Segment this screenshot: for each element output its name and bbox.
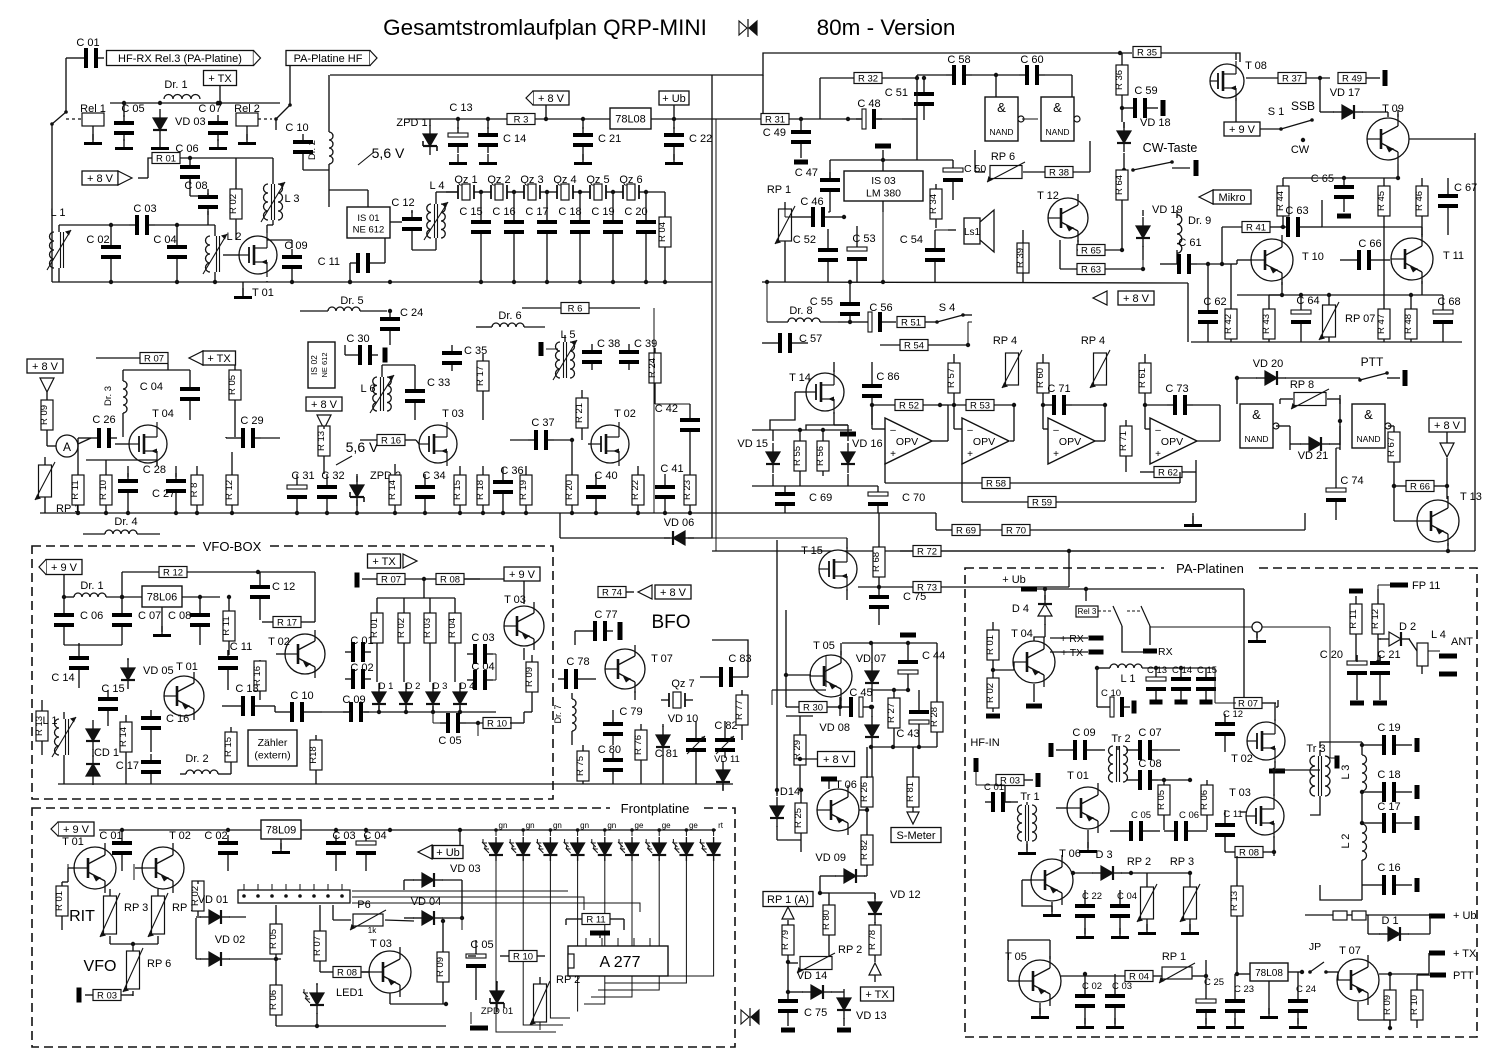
svg-text:78L06: 78L06	[147, 592, 178, 604]
diode LED ge 8	[672, 821, 698, 861]
svg-text:T 08: T 08	[1245, 60, 1267, 72]
svg-text:C 49: C 49	[763, 127, 786, 139]
resistor R 03 front	[77, 988, 134, 1003]
capacitor C 23 pa	[1225, 974, 1254, 1029]
capacitor C 01 front	[99, 830, 132, 871]
diode VD 20	[1235, 358, 1360, 385]
IC 78L06	[142, 586, 220, 637]
svg-text:C 11: C 11	[318, 256, 340, 268]
svg-text:VD 05: VD 05	[143, 665, 174, 677]
capacitor C 08 pa	[1126, 758, 1192, 790]
resistor R 11 pa v	[1348, 589, 1363, 663]
resistor R 12 pa v	[1370, 589, 1384, 664]
svg-text:C 30: C 30	[346, 333, 369, 345]
capacitor C 15 pa	[1196, 665, 1217, 705]
transistor T 04 fet	[115, 408, 174, 466]
crystal Qz 4	[549, 174, 581, 200]
svg-text:R 11: R 11	[70, 480, 81, 499]
svg-text:C 19: C 19	[1377, 722, 1400, 734]
svg-text:&: &	[1364, 407, 1373, 422]
ground pa conn	[1150, 622, 1330, 758]
svg-text:VD 02: VD 02	[215, 934, 246, 946]
svg-text:JP: JP	[1309, 941, 1321, 953]
transformer L 6	[361, 365, 394, 413]
svg-text:R 6: R 6	[568, 303, 583, 314]
Frontplatine label	[610, 801, 700, 816]
svg-text:L 1: L 1	[51, 207, 66, 219]
resistor R 13 v	[316, 426, 330, 474]
node HF-RX box	[107, 51, 261, 66]
svg-text:C 06: C 06	[80, 610, 103, 622]
resistor R 13 pa v	[1229, 856, 1243, 976]
svg-text:C 11: C 11	[1223, 809, 1242, 820]
svg-text:C 74: C 74	[1340, 475, 1363, 487]
capacitor C 71	[1041, 383, 1107, 415]
svg-text:C 28: C 28	[143, 464, 166, 476]
resistor R 02 pa v	[985, 670, 999, 712]
capacitor C 51	[885, 76, 934, 120]
svg-text:HF-IN: HF-IN	[970, 737, 999, 749]
capacitor C 12 vfo	[250, 572, 295, 620]
svg-text:&: &	[1252, 407, 1261, 422]
svg-text:IS 03: IS 03	[871, 175, 896, 187]
svg-text:R 55: R 55	[792, 446, 803, 466]
resistor R 59	[962, 463, 1196, 508]
power +TX mixer	[189, 351, 236, 365]
svg-text:Tr 2: Tr 2	[1111, 733, 1130, 745]
capacitor C 08 vfo	[168, 595, 210, 645]
svg-text:C 63: C 63	[1285, 205, 1308, 217]
svg-text:T 03: T 03	[442, 408, 464, 420]
svg-text:C 04: C 04	[153, 234, 176, 246]
svg-text:R 11: R 11	[1348, 609, 1359, 628]
resistor R 56 v	[815, 428, 829, 476]
transistor T 03 pa fet	[1229, 768, 1284, 850]
svg-text:R 15: R 15	[223, 737, 234, 757]
diode VD 03	[151, 109, 206, 150]
node PA-Platine HF box	[286, 51, 377, 66]
transformer L 4	[424, 180, 450, 250]
resistor R 07 pa	[1234, 698, 1276, 710]
svg-text:T 14: T 14	[789, 372, 811, 384]
svg-text:C 09: C 09	[284, 240, 307, 252]
svg-text:C 66: C 66	[1358, 238, 1381, 250]
svg-text:gn: gn	[580, 821, 589, 830]
svg-text:C 12: C 12	[1223, 709, 1243, 720]
svg-text:gn: gn	[553, 821, 562, 830]
capacitor C 19 pa	[1360, 722, 1420, 755]
capacitor C 81 trim	[655, 721, 706, 784]
inductor Dr. 2	[307, 75, 333, 207]
svg-text:C 56: C 56	[869, 302, 892, 314]
capacitor C 14 vfo	[51, 643, 89, 688]
capacitor C 20 pa	[1320, 649, 1367, 706]
wire is03 in	[785, 209, 792, 217]
svg-text:C 06: C 06	[175, 143, 198, 155]
capacitor C 10 vfo	[275, 690, 322, 722]
wire vfo box right	[464, 579, 524, 604]
capacitor C 41	[655, 463, 684, 513]
svg-text:RP 6: RP 6	[147, 958, 171, 970]
svg-text:R18: R18	[308, 746, 319, 763]
svg-text:VD 14: VD 14	[797, 970, 828, 982]
svg-text:VD 08: VD 08	[819, 722, 850, 734]
svg-text:C 38: C 38	[597, 338, 620, 350]
resistor R 02	[228, 158, 242, 240]
svg-text:Gesamtstromlaufplan QRP-MINI: Gesamtstromlaufplan QRP-MINI	[383, 15, 707, 40]
svg-text:VD 03: VD 03	[175, 116, 206, 128]
svg-text:C 52: C 52	[793, 234, 816, 246]
svg-text:C 59: C 59	[1134, 85, 1157, 97]
diode D 1 vfo	[372, 681, 393, 713]
resistor R 80 v	[820, 893, 835, 962]
svg-text:R 26: R 26	[859, 782, 870, 802]
capacitor C 53	[847, 226, 876, 282]
svg-text:PA-Platine HF: PA-Platine HF	[294, 53, 363, 65]
capacitor C 12 mixer	[390, 197, 436, 250]
pot RP 2 sm	[788, 944, 862, 973]
PA-Platinen dashed frame	[965, 568, 1477, 1037]
transistor T 02 vfo	[268, 630, 325, 678]
node S-Meter box	[891, 828, 941, 843]
transistor T 01 pa	[1056, 770, 1109, 842]
power +8V t13	[1429, 418, 1465, 486]
svg-text:C 08: C 08	[1138, 758, 1161, 770]
resistor R 71 v	[1118, 420, 1132, 472]
svg-text:C 71: C 71	[1047, 383, 1070, 395]
svg-text:R 66: R 66	[1410, 481, 1430, 492]
svg-text:VD 19: VD 19	[1152, 204, 1183, 216]
svg-text:Dr. 2: Dr. 2	[185, 753, 208, 765]
svg-text:BFO: BFO	[651, 612, 690, 633]
transistor T 14 fet	[789, 362, 844, 425]
svg-text:C 08: C 08	[168, 610, 191, 622]
svg-text:OPV: OPV	[973, 436, 995, 448]
IC IS 02	[308, 342, 335, 388]
svg-text:VD 21: VD 21	[1298, 450, 1329, 462]
svg-text:D 2: D 2	[1399, 621, 1416, 633]
diode LED ge 6	[618, 821, 644, 861]
capacitor C 05 front	[466, 939, 494, 1000]
svg-text:T 05: T 05	[813, 640, 835, 652]
wire sm down	[818, 876, 822, 895]
svg-text:C 07: C 07	[198, 103, 221, 115]
wire xtal chain	[446, 191, 458, 193]
capacitor C 39	[619, 338, 657, 370]
svg-text:C 06: C 06	[1179, 810, 1199, 821]
svg-text:C 13: C 13	[449, 102, 472, 114]
diode VD 15	[737, 430, 852, 486]
capacitor C 56	[848, 302, 896, 332]
diode VD 05	[121, 658, 174, 689]
svg-text:Frontplatine: Frontplatine	[621, 801, 690, 816]
svg-text:R 79: R 79	[780, 930, 791, 950]
wire t14 gate loop	[770, 392, 848, 430]
power +Ub pa	[1002, 574, 1244, 703]
svg-text:R 12: R 12	[1370, 609, 1381, 629]
capacitor C 24 pa2	[1288, 972, 1316, 1029]
svg-text:Dr. 7: Dr. 7	[553, 704, 563, 723]
resistor R 25 v	[793, 788, 807, 840]
svg-text:L 4: L 4	[430, 180, 445, 192]
diode LED gn 1	[482, 821, 507, 861]
svg-text:RP 8: RP 8	[1290, 379, 1314, 391]
wire audio misc	[830, 75, 953, 162]
wire pa rel3 rx path	[1034, 637, 1145, 652]
svg-text:R 57: R 57	[946, 368, 957, 388]
svg-text:VD 18: VD 18	[1140, 117, 1171, 129]
resistor R 38	[1023, 141, 1090, 178]
svg-text:T 07: T 07	[1339, 945, 1361, 957]
op-amp OPV3	[1043, 405, 1105, 464]
resistor R 18 v	[475, 466, 489, 513]
capacitor C 07 pa	[1126, 727, 1180, 760]
power +TX top	[204, 71, 237, 86]
svg-text:T 07: T 07	[651, 653, 673, 665]
pot RP 3 pa	[1131, 856, 1200, 935]
capacitor C 06 pa	[1164, 810, 1207, 841]
svg-text:R 16: R 16	[381, 435, 401, 446]
svg-text:+ 8 V: + 8 V	[1123, 293, 1150, 305]
svg-text:+ TX: + TX	[207, 353, 231, 365]
capacitor C 02 vfo	[345, 662, 374, 689]
wire sm top	[772, 690, 826, 705]
resistor R 07 vfo	[377, 574, 426, 586]
svg-text:R 53: R 53	[970, 400, 990, 411]
capacitor C 04 vfo2	[467, 661, 495, 690]
svg-text:R 43: R 43	[1261, 314, 1272, 334]
svg-text:C 23: C 23	[1234, 984, 1254, 995]
capacitor C 11 pa	[1215, 809, 1243, 852]
transistor T 07 bfo	[605, 645, 673, 700]
power +8V smeter	[798, 752, 855, 767]
wire sm join	[777, 840, 801, 852]
capacitor C 13 pa	[1146, 665, 1167, 705]
svg-text:VD 16: VD 16	[852, 438, 883, 450]
transistor T 09	[1367, 103, 1475, 178]
svg-text:R 07: R 07	[381, 574, 401, 585]
resistor R 64 v	[1114, 170, 1128, 240]
svg-text:NE 612: NE 612	[320, 352, 329, 377]
wire audio bottom bus	[1191, 341, 1462, 343]
svg-text:gn: gn	[499, 821, 508, 830]
crystal Qz 7	[661, 678, 695, 708]
resistor R 11 front	[566, 914, 624, 931]
capacitor C 26	[78, 414, 117, 448]
capacitor C 32	[317, 470, 345, 513]
svg-text:R 74: R 74	[602, 587, 622, 598]
svg-text:R 01: R 01	[985, 635, 996, 655]
diode VD 01	[196, 894, 246, 924]
inductor Dr. 4	[83, 516, 160, 534]
switch PTT	[1358, 355, 1407, 386]
resistor R 39 v	[1015, 230, 1029, 282]
node FP 11	[1378, 580, 1440, 592]
wire TX drop	[219, 86, 221, 103]
capacitor C 11 vfo	[218, 641, 252, 690]
wire relay rail	[110, 101, 280, 105]
svg-text:PA-Platinen: PA-Platinen	[1176, 561, 1244, 576]
svg-text:R 54: R 54	[904, 340, 924, 351]
svg-text:R 02: R 02	[396, 618, 407, 638]
svg-text:L 1: L 1	[43, 715, 58, 727]
capacitor C 03 vfo	[467, 632, 495, 664]
svg-text:A: A	[63, 440, 71, 454]
diode LED gn 2	[509, 821, 534, 861]
svg-text:L 2: L 2	[1340, 834, 1352, 849]
wire t09 col	[1474, 133, 1476, 139]
capacitor C 04 pa2	[1110, 890, 1137, 939]
svg-text:D 1: D 1	[1381, 915, 1398, 927]
capacitor C 83	[700, 653, 752, 687]
resistor R 14 vfo	[118, 715, 132, 784]
capacitor C 34	[415, 470, 446, 513]
diode VD 13	[837, 989, 887, 1033]
gnd T14	[834, 425, 856, 437]
wire audio out	[828, 212, 948, 284]
VFO-BOX dashed frame	[32, 546, 553, 799]
capacitor C 35	[442, 345, 487, 371]
svg-text:C 14: C 14	[51, 672, 74, 684]
svg-text:HF-RX Rel.3 (PA-Platine): HF-RX Rel.3 (PA-Platine)	[118, 53, 242, 65]
resistor R 01 pa v	[985, 622, 1014, 672]
resistor R 05 front v	[268, 905, 282, 961]
svg-text:FP 11: FP 11	[1412, 580, 1440, 592]
svg-text:R 18: R 18	[475, 480, 486, 500]
svg-text:80m - Version: 80m - Version	[817, 15, 956, 40]
resistor R 75 v	[575, 745, 589, 784]
resistor R 57 v	[946, 354, 960, 407]
svg-text:C 34: C 34	[422, 470, 445, 482]
resistor R 12 v	[224, 452, 238, 513]
wire vfo t04	[476, 721, 480, 736]
svg-text:C 73: C 73	[1165, 383, 1188, 395]
wire C01 left down	[66, 58, 78, 112]
power +TX vfo	[368, 554, 418, 568]
resistor R 29 v	[786, 716, 813, 790]
capacitor C 01 vfo	[345, 635, 374, 662]
resistor R 02 vfo v	[396, 598, 410, 682]
pot RP 2 pa	[1127, 856, 1157, 935]
capacitor C 82 trim	[714, 720, 737, 758]
svg-text:R 32: R 32	[858, 73, 878, 84]
power +9V vfo	[39, 560, 82, 575]
resistor R 07 front v	[312, 905, 326, 968]
svg-text:R 23: R 23	[682, 480, 693, 500]
resistor R 43 v	[1261, 295, 1282, 342]
transformer L 2	[203, 225, 241, 282]
svg-text:C 33: C 33	[427, 377, 450, 389]
svg-text:R 3: R 3	[514, 114, 529, 125]
svg-text:VD 04: VD 04	[411, 896, 442, 908]
svg-text:+: +	[967, 449, 973, 460]
svg-text:R 01: R 01	[54, 891, 65, 911]
resistor R18 vfo	[308, 735, 322, 784]
svg-text:–: –	[1155, 425, 1161, 436]
resistor R 26 v	[859, 747, 873, 812]
capacitor C 45	[838, 687, 873, 717]
capacitor C 10 pa	[1095, 666, 1137, 717]
svg-text:R 13: R 13	[316, 431, 327, 451]
resistor R 52	[870, 400, 942, 412]
svg-text:C 10: C 10	[290, 690, 313, 702]
node +TX pa	[1061, 647, 1104, 659]
svg-text:C 07: C 07	[138, 610, 161, 622]
transistor T 02 fet	[588, 408, 636, 466]
svg-text:L 6: L 6	[361, 383, 376, 395]
tbar front	[590, 931, 610, 939]
svg-text:R 24: R 24	[647, 358, 658, 378]
svg-text:RP 4: RP 4	[1081, 335, 1105, 347]
inductor Dr. 3	[103, 370, 127, 437]
svg-text:C 01: C 01	[350, 635, 373, 647]
power +9V s1	[1224, 122, 1260, 136]
node +RX pa	[1060, 633, 1103, 645]
crystal Qz 2	[483, 174, 515, 200]
resistor R 10 front	[500, 951, 545, 963]
capacitor C 01	[76, 37, 104, 68]
svg-text:CW-Taste: CW-Taste	[1143, 141, 1198, 155]
wire led rail	[494, 828, 715, 832]
svg-text:+ RX: + RX	[1060, 633, 1084, 645]
svg-text:OPV: OPV	[1161, 436, 1183, 448]
svg-text:Rel 2: Rel 2	[234, 103, 260, 115]
resistor R 07 mixer	[96, 353, 190, 371]
op-amp OPV1	[872, 405, 948, 464]
svg-text:C 15: C 15	[1197, 665, 1217, 676]
svg-text:VD 17: VD 17	[1330, 87, 1361, 99]
capacitor C 63	[1280, 200, 1322, 237]
power +8V bfo	[638, 585, 691, 599]
svg-text:C 03: C 03	[471, 632, 494, 644]
switch JP pa	[1308, 941, 1338, 974]
capacitor C 37	[510, 417, 572, 450]
capacitor C 06 vfo	[54, 595, 103, 645]
wire mixer bus	[40, 511, 936, 515]
transistor T 01 vfo	[164, 661, 204, 720]
svg-text:Qz 5: Qz 5	[586, 174, 609, 186]
capacitor C 28	[143, 464, 186, 513]
pot RP 3 front	[100, 889, 148, 937]
resistor R 81 v	[905, 747, 919, 812]
capacitor C 06	[175, 143, 200, 196]
svg-text:NAND: NAND	[1045, 127, 1069, 137]
pot RP 07	[1319, 295, 1375, 342]
svg-text:5,6 V: 5,6 V	[346, 439, 379, 455]
IC 78L09	[261, 820, 301, 854]
svg-text:R 25: R 25	[793, 808, 804, 828]
resistor R 82 v	[859, 810, 873, 876]
transistor T 03 front	[362, 938, 411, 997]
svg-text:+ Ub: + Ub	[1453, 910, 1477, 922]
capacitor C 68	[1433, 295, 1461, 342]
power +9V front	[51, 822, 94, 836]
svg-text:R 19: R 19	[518, 480, 529, 500]
resistor R 77 v	[734, 690, 748, 740]
svg-text:+ TX: + TX	[372, 556, 396, 568]
wire front a277	[352, 891, 640, 956]
svg-text:OPV: OPV	[1059, 436, 1081, 448]
resistor R 06 front v	[268, 959, 282, 1026]
svg-text:C 07: C 07	[1138, 727, 1161, 739]
svg-text:C 16: C 16	[1377, 862, 1400, 874]
svg-text:+ 8 V: + 8 V	[32, 361, 59, 373]
capacitor C 16 pa	[1362, 862, 1420, 895]
resistor R 09 front v	[435, 919, 449, 1004]
wire front rail	[99, 828, 716, 832]
svg-text:R 39: R 39	[1015, 248, 1026, 268]
svg-text:P6: P6	[357, 899, 370, 911]
